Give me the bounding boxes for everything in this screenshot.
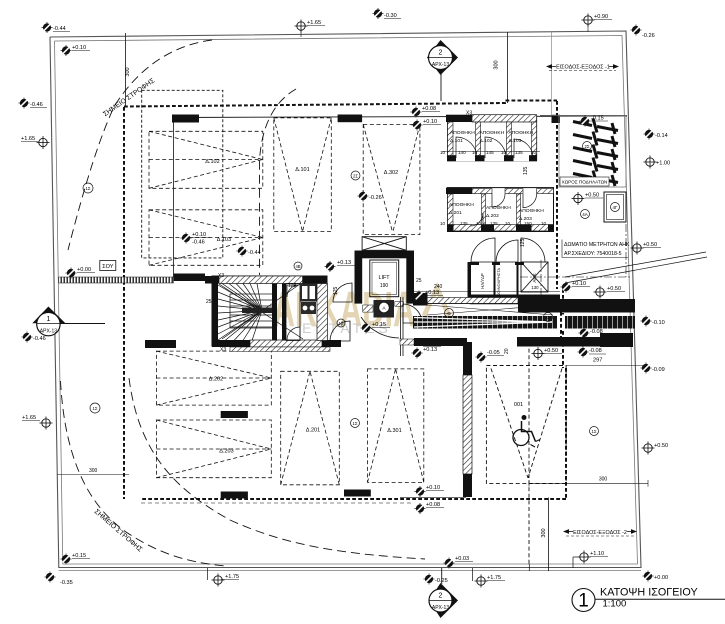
parking space D.302 xyxy=(363,124,420,234)
svg-text:+1.65: +1.65 xyxy=(22,415,36,421)
parking space D.301 xyxy=(368,369,424,483)
parking area right wall xyxy=(463,342,472,375)
service rooms bottom hatch xyxy=(470,299,530,304)
plot boundary inner line xyxy=(55,36,642,571)
svg-text:300: 300 xyxy=(89,468,98,474)
svg-text:135: 135 xyxy=(460,221,468,226)
ramp band xyxy=(413,316,635,329)
svg-text:+0.10: +0.10 xyxy=(426,485,440,491)
lift sill hatches xyxy=(363,305,373,312)
svg-text:-0.25: -0.25 xyxy=(435,578,448,584)
row2 left wall hatched xyxy=(448,194,454,225)
ramp band arrows white xyxy=(414,318,552,328)
wall bar left of block xyxy=(145,340,176,348)
svg-text:ΑΠΟΘΗΚΗ: ΑΠΟΘΗΚΗ xyxy=(450,130,475,136)
svg-text:+0.15: +0.15 xyxy=(72,553,86,559)
svg-text:-0.44: -0.44 xyxy=(53,26,66,32)
turning-curve bottom-left xyxy=(61,381,226,566)
row2 divider 2 hatched xyxy=(517,194,521,225)
AHK box xyxy=(521,262,548,292)
svg-text:ΑΡ.ΣΧΕΔΙΟΥ: 7540018-5: ΑΡ.ΣΧΕΔΙΟΥ: 7540018-5 xyxy=(564,251,622,257)
svg-text:4Γ: 4Γ xyxy=(613,205,619,210)
service door arcs above xyxy=(471,238,495,262)
svg-text:+0.08: +0.08 xyxy=(422,106,436,112)
marker -0.44 top-left xyxy=(42,22,53,33)
svg-text:Χ3: Χ3 xyxy=(466,111,472,117)
svg-text:1: 1 xyxy=(578,591,589,612)
marker +0.50 storage xyxy=(572,192,585,205)
marker +0.00 left drive xyxy=(66,268,77,279)
svg-text:125: 125 xyxy=(520,238,526,247)
top wall black left xyxy=(205,276,219,284)
row1 bottom wall black blocks xyxy=(448,156,457,161)
stair treads fan xyxy=(218,284,303,341)
svg-text:2Σ: 2Σ xyxy=(353,174,358,179)
grid line vertical left xyxy=(173,116,175,277)
parking space D.102 xyxy=(149,131,263,188)
row1 door gaps xyxy=(456,155,475,161)
stair straight treads xyxy=(230,299,276,301)
svg-text:ΑΠΟΘΗΚΗ: ΑΠΟΘΗΚΗ xyxy=(509,130,534,136)
row2 bottom wall black blocks xyxy=(448,225,454,231)
row2 bottom wall hatched xyxy=(448,225,554,231)
svg-text:-0.46: -0.46 xyxy=(192,240,205,246)
svg-text:Δ.103: Δ.103 xyxy=(217,237,231,243)
svg-text:125: 125 xyxy=(333,286,339,295)
corridor top hatch strip xyxy=(427,298,518,304)
storage row1 labels xyxy=(450,130,534,144)
marker -0.05 xyxy=(476,352,487,363)
marker -0.44 in D.103 xyxy=(237,246,248,257)
wc room1 left wall xyxy=(282,284,286,341)
svg-text:Δ.301: Δ.301 xyxy=(387,428,401,434)
marker -0.08 + 297 xyxy=(578,347,589,358)
svg-text:240: 240 xyxy=(434,284,443,290)
bicycle area boundary xyxy=(559,116,626,187)
bottom hatch strip xyxy=(230,347,330,352)
svg-text:-0.35: -0.35 xyxy=(60,580,73,586)
marker +1.75 bottom-mid xyxy=(472,568,474,581)
wc room2 fixtures xyxy=(300,284,317,302)
meter room centerline xyxy=(520,276,632,278)
svg-text:Δ.202: Δ.202 xyxy=(209,377,223,383)
marker +0.00 bottom-right xyxy=(643,571,654,582)
svg-text:+1.00: +1.00 xyxy=(656,161,670,167)
bicycle area label xyxy=(560,177,609,186)
svg-text:ΔΩΜΑΤΙΟ ΜΕΤΡΗΤΩΝ ΑΗΚ: ΔΩΜΑΤΙΟ ΜΕΤΡΗΤΩΝ ΑΗΚ xyxy=(564,242,630,248)
svg-text:1Σ: 1Σ xyxy=(592,429,597,434)
turning-curve inner top xyxy=(260,89,297,275)
svg-text:2: 2 xyxy=(439,50,443,57)
marker +0.90 top vertical tick xyxy=(587,24,589,32)
svg-text:001: 001 xyxy=(514,402,523,408)
svg-text:Δ.101: Δ.101 xyxy=(450,138,463,144)
marker -0.26 D.302 xyxy=(358,191,369,202)
marker -0.46 left lower xyxy=(22,332,33,343)
ramp bottom wall black mid xyxy=(517,337,600,347)
svg-text:Χ3: Χ3 xyxy=(220,347,226,353)
marker +0.10 bottom edge xyxy=(415,486,426,497)
wall bar top 2 xyxy=(338,115,363,123)
svg-text:Δ.302: Δ.302 xyxy=(384,170,398,176)
marker +0.13 below corridor xyxy=(412,348,423,359)
marker +0.08 building top xyxy=(411,107,422,118)
parking space D.202 xyxy=(156,351,271,405)
svg-text:10: 10 xyxy=(541,221,547,226)
svg-text:-0.26: -0.26 xyxy=(642,33,655,39)
marker +0.50 right lower xyxy=(642,442,655,455)
lift shaft walls xyxy=(355,251,415,304)
wheelchair symbol xyxy=(513,415,540,447)
section marker bottom xyxy=(429,568,458,618)
left wall xyxy=(212,276,218,346)
svg-text:150: 150 xyxy=(524,221,532,226)
svg-text:-0.46: -0.46 xyxy=(30,102,43,108)
marker -0.25 bottom xyxy=(424,574,435,585)
svg-text:145: 145 xyxy=(486,150,494,155)
parking space 001 disabled xyxy=(486,342,566,566)
svg-text:+0.50: +0.50 xyxy=(544,348,558,354)
row1 door arcs xyxy=(456,137,533,158)
svg-text:-0.46: -0.46 xyxy=(33,336,46,342)
svg-text:ΑΠΟΘΗΚΗ: ΑΠΟΘΗΚΗ xyxy=(486,205,511,211)
marker +0.10/-0.46 in D.103 xyxy=(181,233,192,244)
meter room text xyxy=(564,242,630,257)
stair block outer walls xyxy=(145,276,341,352)
marker +1.10 bottom-right xyxy=(572,557,574,568)
svg-text:-0.05: -0.05 xyxy=(487,350,500,356)
row2 divider 1 hatched xyxy=(482,194,486,225)
svg-text:1Σ: 1Σ xyxy=(353,421,358,426)
parking space D.103 xyxy=(149,210,263,265)
marker -0.35 bottom-left xyxy=(45,572,56,583)
marker +0.08 bottom edge xyxy=(415,503,426,514)
svg-text:10: 10 xyxy=(476,221,482,226)
turning-curve bottom inner xyxy=(129,378,425,559)
dim line 300 left bottom xyxy=(57,474,129,476)
svg-text:4Α: 4Α xyxy=(582,212,588,217)
svg-text:10: 10 xyxy=(472,150,478,155)
top wall hatched xyxy=(219,276,303,284)
svg-text:ΕΙΣΟΔΟΣ-ΕΞΟΔΟΣ -1: ΕΙΣΟΔΟΣ-ΕΞΟΔΟΣ -1 xyxy=(556,65,610,71)
service rooms left wall xyxy=(468,262,472,298)
lobby door arc 3 xyxy=(361,317,399,338)
row1 top wall black part xyxy=(446,115,472,122)
marker +0.15 bottom-left xyxy=(61,554,72,565)
marker -0.10 right edge xyxy=(641,316,652,327)
service rooms block xyxy=(468,238,561,304)
svg-text:+1.65: +1.65 xyxy=(307,20,321,26)
wc room1 door arc bottom xyxy=(287,327,300,340)
ramp bottom wall black right xyxy=(600,333,633,347)
corridor direction X lines xyxy=(427,305,553,315)
svg-text:300: 300 xyxy=(494,60,500,69)
building outline bold dashed xyxy=(124,101,566,500)
driveway black bar xyxy=(174,274,206,282)
misc small dims xyxy=(89,111,529,475)
row2 top wall black part xyxy=(446,188,472,194)
plot boundary outer line xyxy=(50,31,641,568)
svg-text:ΚΑΤΟΨΗ ΙΣΟΓΕΙΟΥ: ΚΑΤΟΨΗ ΙΣΟΓΕΙΟΥ xyxy=(600,587,698,599)
marker +0.50 meter xyxy=(631,242,644,255)
svg-text:+0.50: +0.50 xyxy=(643,242,657,248)
svg-text:1β: 1β xyxy=(339,321,344,326)
entrance zone left line top-right xyxy=(551,31,553,116)
lobby door arc xyxy=(330,321,350,341)
dim line 240 corridor xyxy=(414,291,560,293)
marker -0.09 right edge xyxy=(641,363,652,374)
marker +1.75 bottom-left xyxy=(207,568,209,580)
svg-text:+0.13: +0.13 xyxy=(337,260,351,266)
svg-text:25: 25 xyxy=(416,278,422,284)
overhang dashed rect xyxy=(142,90,223,258)
utility box right xyxy=(604,192,626,222)
svg-text:2: 2 xyxy=(439,593,443,600)
row1 divider 2 hatched xyxy=(507,122,512,156)
service rooms top wall segments xyxy=(471,262,479,265)
svg-text:+0.50: +0.50 xyxy=(585,193,599,199)
marker +0.13 corridor xyxy=(414,291,425,302)
lobby-corridor door frame xyxy=(400,297,402,356)
storage row2 labels xyxy=(449,202,544,222)
svg-text:Χ3: Χ3 xyxy=(218,273,224,279)
svg-text:+0.03: +0.03 xyxy=(455,556,469,562)
top edge interior line xyxy=(173,116,627,118)
svg-text:1:100: 1:100 xyxy=(603,599,627,610)
storage row1 dims xyxy=(440,150,537,155)
svg-text:+0.00: +0.00 xyxy=(654,575,668,581)
dim line 297 xyxy=(566,365,644,367)
turning-curve top-left xyxy=(68,40,212,250)
entrance zone bottom line top-right xyxy=(540,115,627,117)
section marker top xyxy=(427,40,458,101)
corridor bottom hatch left xyxy=(400,339,414,345)
stair inner boundary xyxy=(230,294,276,328)
electrical box A xyxy=(374,300,395,318)
parking space D.101 xyxy=(274,118,332,232)
marker +0.10 building top xyxy=(412,120,423,131)
svg-text:+0.10: +0.10 xyxy=(72,45,86,51)
svg-text:+0.00: +0.00 xyxy=(77,267,91,273)
svg-text:25: 25 xyxy=(206,299,212,305)
storage row2 dims xyxy=(440,221,547,226)
stair diagonal direction lines xyxy=(219,284,303,339)
svg-text:+1.65: +1.65 xyxy=(21,136,35,142)
svg-text:300: 300 xyxy=(541,528,547,537)
svg-text:+0.15: +0.15 xyxy=(372,322,386,328)
svg-text:LIFT: LIFT xyxy=(378,275,390,281)
service room divider 1 xyxy=(494,265,496,295)
storage block row2 walls xyxy=(446,188,554,232)
svg-text:10: 10 xyxy=(440,150,446,155)
wc room1 door arc top xyxy=(287,285,299,297)
svg-text:ΧΩΡΟΣ ΠΟΔΗΛΑΤΩΝ: ΧΩΡΟΣ ΠΟΔΗΛΑΤΩΝ xyxy=(562,180,608,185)
svg-text:20: 20 xyxy=(504,348,510,354)
svg-text:Δ.203: Δ.203 xyxy=(219,449,233,455)
circled tiny labels xyxy=(83,142,599,436)
svg-text:ΣΟΥ: ΣΟΥ xyxy=(102,264,114,270)
dimension line top-left vertical xyxy=(125,33,127,107)
wc wall between stair and rooms xyxy=(272,284,277,341)
svg-text:ΑΠΟΘΗΚΗ: ΑΠΟΘΗΚΗ xyxy=(480,130,505,136)
bottom-right entrance lines xyxy=(547,498,549,572)
marker -0.26 top-right xyxy=(631,25,642,36)
entrance-exit 1 label xyxy=(546,64,619,70)
upper flight treads fan xyxy=(222,284,262,311)
svg-text:ΑΡΧ-13: ΑΡΧ-13 xyxy=(432,605,449,611)
marker +1.65 top xyxy=(295,20,308,33)
wall block at building corner top-right xyxy=(552,115,561,123)
svg-text:+0.90: +0.90 xyxy=(594,14,608,20)
svg-text:ΕΙΣΟΔΟΣ-ΕΞΟΔΟΣ -2: ΕΙΣΟΔΟΣ-ΕΞΟΔΟΣ -2 xyxy=(573,530,627,536)
svg-text:1Σ: 1Σ xyxy=(93,406,98,411)
marker +1.00 right xyxy=(644,156,657,169)
wall bar top 1 xyxy=(172,115,199,123)
row2 door arcs inside xyxy=(470,194,537,226)
marker +0.50 above ramp xyxy=(594,286,607,299)
svg-text:135: 135 xyxy=(523,166,529,175)
svg-text:135: 135 xyxy=(490,221,498,226)
marker +0.10 mid-right xyxy=(561,282,572,293)
svg-text:Δ.102: Δ.102 xyxy=(480,138,493,144)
svg-text:ΑΡΧ-13: ΑΡΧ-13 xyxy=(432,62,449,68)
svg-text:+0.10: +0.10 xyxy=(192,232,206,238)
lift cabin xyxy=(370,260,399,297)
svg-text:+0.13: +0.13 xyxy=(425,290,439,296)
corridor bottom wall black xyxy=(414,338,467,346)
marker +1.65 top vertical tick xyxy=(300,30,302,37)
marker -0.30 top xyxy=(373,8,384,19)
svg-text:297: 297 xyxy=(593,358,602,364)
svg-text:+1.75: +1.75 xyxy=(487,575,501,581)
marker -0.15 bikes xyxy=(580,116,591,127)
svg-text:+1.75: +1.75 xyxy=(225,574,239,580)
svg-text:ΑΡΧ-13: ΑΡΧ-13 xyxy=(40,329,57,335)
row1 bottom wall hatched xyxy=(448,156,537,161)
building outline thin dashed echo bottom xyxy=(141,502,414,504)
svg-text:+0.10: +0.10 xyxy=(572,281,586,287)
title block xyxy=(572,587,725,612)
wc room1 xyxy=(286,284,300,341)
entrance-exit 2 label xyxy=(563,529,637,536)
row1 right wall hatched xyxy=(532,122,537,156)
marker -0.08 right xyxy=(579,328,590,339)
svg-text:10: 10 xyxy=(505,221,511,226)
marker +0.03 bottom xyxy=(444,558,455,569)
watermark ARKADIA xyxy=(273,281,449,337)
svg-text:+1.10: +1.10 xyxy=(590,551,604,557)
svg-text:10: 10 xyxy=(440,221,446,226)
svg-text:+0.13: +0.13 xyxy=(423,347,437,353)
svg-text:190: 190 xyxy=(380,283,389,289)
row1 divider 1 hatched xyxy=(476,122,481,156)
svg-text:300: 300 xyxy=(125,67,131,76)
svg-text:+0.50: +0.50 xyxy=(654,443,668,449)
machine box above lift xyxy=(362,237,406,251)
svg-text:ΑΗΚ: ΑΗΚ xyxy=(532,273,537,282)
svg-text:-0.09: -0.09 xyxy=(652,367,665,373)
svg-text:+0.10: +0.10 xyxy=(423,119,437,125)
svg-text:-0.08: -0.08 xyxy=(590,329,603,335)
svg-text:+0.50: +0.50 xyxy=(607,286,621,292)
svg-text:135: 135 xyxy=(515,150,523,155)
svg-text:-0.10: -0.10 xyxy=(652,320,665,326)
parking space D.203 xyxy=(156,420,271,478)
svg-text:1Σ: 1Σ xyxy=(86,186,91,191)
corridor door arc xyxy=(403,304,422,323)
svg-text:Δ.102: Δ.102 xyxy=(205,159,219,165)
bottom wall xyxy=(212,340,250,347)
svg-text:-0.26: -0.26 xyxy=(369,195,382,201)
circle label 4A xyxy=(581,210,590,219)
row1 left wall hatched xyxy=(448,122,454,161)
corridor lines xyxy=(414,303,560,305)
svg-text:140: 140 xyxy=(458,150,466,155)
svg-text:Δ.201: Δ.201 xyxy=(306,428,320,434)
svg-text:-0.30: -0.30 xyxy=(384,13,397,19)
SOY box xyxy=(100,261,116,271)
marker +0.15 lobby lower xyxy=(361,323,372,334)
svg-text:130: 130 xyxy=(531,285,539,290)
svg-text:Δ.103: Δ.103 xyxy=(509,138,522,144)
ramp top wall black xyxy=(518,299,635,313)
svg-text:-0.15: -0.15 xyxy=(591,116,604,122)
service rooms bottom wall xyxy=(468,295,561,300)
svg-text:Δ.101: Δ.101 xyxy=(295,167,309,173)
svg-text:4Β: 4Β xyxy=(295,264,300,269)
dimension line top-right vertical xyxy=(507,32,509,103)
svg-text:Δ.201: Δ.201 xyxy=(449,210,462,216)
parking space D.201 xyxy=(281,371,340,485)
marker +0.50 mid xyxy=(532,347,545,360)
svg-text:2Σ: 2Σ xyxy=(585,144,590,149)
svg-text:1: 1 xyxy=(46,316,50,323)
marker +0.13 lobby xyxy=(325,261,336,272)
top wall black right xyxy=(303,276,328,284)
marker +0.90 top xyxy=(582,14,595,27)
storage block row1 walls xyxy=(446,115,537,162)
meter room leader lines xyxy=(565,252,706,277)
svg-text:10: 10 xyxy=(501,150,507,155)
corridor left black cap xyxy=(413,293,428,306)
svg-text:ΗΛ/ΥΔΡ: ΗΛ/ΥΔΡ xyxy=(480,273,485,289)
driveway hatch strip left xyxy=(59,277,174,283)
svg-text:-0.14: -0.14 xyxy=(655,133,668,139)
row2 top wall hatched parts xyxy=(472,189,492,194)
svg-text:128: 128 xyxy=(288,283,297,289)
svg-text:10: 10 xyxy=(531,150,537,155)
svg-text:ΑΠΟΘΗΚΗ: ΑΠΟΘΗΚΗ xyxy=(449,202,474,208)
service room divider 2 xyxy=(517,265,519,295)
svg-text:ΑΠΟΘΗΚΗ: ΑΠΟΘΗΚΗ xyxy=(519,208,544,214)
svg-text:Δ.202: Δ.202 xyxy=(486,213,499,219)
bicycle parking symbols xyxy=(573,119,618,187)
lobby door arc 2 xyxy=(333,283,352,302)
row1 top wall hatched part xyxy=(472,115,537,122)
svg-text:300: 300 xyxy=(599,477,608,483)
svg-text:ΚΟΙΝΟΧΡΗΣΤΑ: ΚΟΙΝΟΧΡΗΣΤΑ xyxy=(496,268,501,297)
band gap at building line xyxy=(557,315,565,331)
marker -0.14 right xyxy=(644,129,655,140)
bottom wall bars xyxy=(221,492,248,499)
marker +0.10 top-left xyxy=(61,45,72,56)
dim line 300 bottom right xyxy=(529,482,648,484)
svg-text:-0.08: -0.08 xyxy=(589,348,602,354)
svg-text:+0.08: +0.08 xyxy=(426,502,440,508)
section marker left xyxy=(32,307,105,336)
stair handrail bar xyxy=(242,308,275,314)
marker -0.46 left xyxy=(19,98,30,109)
